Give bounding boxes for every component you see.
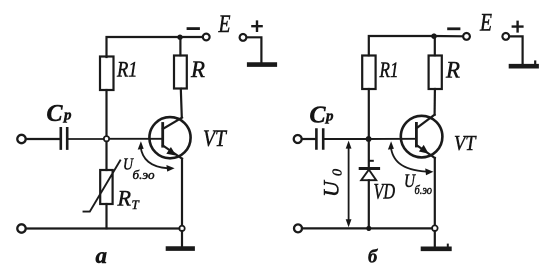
- label R: [190, 57, 205, 82]
- wire thermistor to bottom rail: [105, 204, 107, 229]
- wire emitter down (right): [434, 158, 436, 225]
- label R1 (right): [379, 57, 399, 82]
- ground top right (left circuit): [249, 62, 275, 67]
- minus sign: [188, 27, 199, 30]
- label U b.e0 (right): [404, 171, 432, 197]
- label VD: [374, 179, 396, 204]
- label U0 (rotated): [319, 169, 346, 197]
- wire base node to transistor base: [109, 138, 161, 140]
- ground top right (right circuit): [511, 62, 537, 67]
- label Cp (right): [310, 103, 335, 129]
- label VT (left): [203, 126, 228, 151]
- label RT: [116, 186, 139, 213]
- wire rail to resistor R (right): [434, 36, 436, 56]
- resistor R1: [100, 57, 114, 91]
- svg-text:б.эо: б.эо: [415, 183, 433, 197]
- wire bottom rail right circuit: [302, 227, 432, 229]
- plus sign (right): [513, 22, 523, 32]
- capacitor Cp (right): [316, 130, 323, 149]
- terminal + (right): [502, 33, 509, 40]
- terminal -E (right): [463, 33, 470, 40]
- wire emitter down: [181, 159, 183, 226]
- svg-text:E: E: [218, 11, 231, 38]
- wire rail to -E terminal (right): [434, 35, 463, 37]
- diode VD: [360, 142, 378, 229]
- label E (right): [479, 10, 492, 37]
- svg-text:T: T: [132, 197, 140, 212]
- svg-text:VT: VT: [454, 131, 477, 155]
- node base junction (right, filled): [366, 136, 372, 142]
- resistor R1 (right): [362, 56, 375, 90]
- label a: [96, 243, 108, 268]
- svg-text:R1: R1: [379, 57, 399, 82]
- ground bottom (left circuit): [168, 231, 193, 249]
- terminal input top (right): [294, 135, 302, 143]
- capacitor Cp (left): [61, 128, 67, 148]
- label R1: [116, 56, 137, 81]
- terminal -E: [203, 34, 210, 41]
- wire rail to -E terminal: [180, 36, 203, 38]
- label Cp: [47, 101, 73, 127]
- wire R to collector: [181, 89, 182, 118]
- resistor R: [174, 56, 187, 89]
- label b: [368, 248, 378, 268]
- minus sign (right): [449, 27, 459, 30]
- node junction top (collector branch): [177, 35, 182, 40]
- svg-text:0: 0: [331, 169, 346, 176]
- plus sign: [252, 22, 261, 31]
- svg-text:C: C: [47, 101, 64, 127]
- wire top rail left circuit: [107, 37, 181, 57]
- wire + terminal to ground (right): [509, 36, 522, 64]
- terminal input bottom (right): [294, 224, 302, 232]
- svg-text:R: R: [445, 58, 460, 83]
- wire bottom rail left circuit: [26, 227, 180, 229]
- node emitter-rail junction (open): [179, 226, 184, 231]
- wire capacitor to base node (right): [325, 138, 369, 140]
- wire capacitor to base node: [69, 138, 104, 140]
- node junction top right: [431, 33, 437, 39]
- svg-text:R1: R1: [116, 56, 137, 81]
- terminal input bottom: [17, 224, 25, 232]
- wire input to capacitor (right): [302, 138, 315, 140]
- svg-text:R: R: [116, 186, 131, 211]
- svg-text:p: p: [324, 109, 334, 125]
- wire base node to thermistor: [105, 142, 107, 171]
- U b.e arrow (right, curved): [388, 141, 434, 175]
- wire R1 to base node (right): [368, 89, 370, 139]
- node diode-rail junction (filled): [366, 226, 371, 231]
- label VT (right): [454, 131, 477, 155]
- terminal input top: [17, 135, 25, 143]
- wire R1 bottom to base node: [105, 90, 107, 136]
- svg-text:б: б: [368, 248, 378, 268]
- wire rail to resistor R: [179, 37, 181, 56]
- svg-text:p: p: [62, 108, 72, 124]
- label R (right): [445, 58, 460, 83]
- svg-text:U: U: [319, 179, 344, 197]
- svg-text:б.эо: б.эо: [133, 168, 155, 182]
- wire R to collector (right): [434, 89, 436, 115]
- wire input to capacitor: [26, 138, 59, 140]
- U b.e arrow (left, curved): [138, 141, 175, 171]
- transistor VT (left): [149, 117, 190, 159]
- wire top rail right circuit: [369, 36, 434, 56]
- label E: [218, 11, 231, 38]
- label U b.e (left): [123, 154, 155, 182]
- node base junction (open): [104, 136, 109, 141]
- transistor VT (right): [401, 115, 443, 158]
- terminal +: [240, 34, 247, 41]
- node emitter-rail junction (right, open): [432, 225, 438, 231]
- svg-text:VT: VT: [203, 126, 228, 151]
- svg-text:R: R: [190, 57, 205, 82]
- thermistor RT: [84, 160, 121, 211]
- ground bottom (right circuit): [423, 231, 449, 249]
- wire + terminal to ground: [247, 37, 262, 62]
- wire base node to transistor base (right): [369, 138, 416, 140]
- svg-text:E: E: [479, 10, 492, 37]
- svg-text:C: C: [310, 103, 327, 129]
- resistor R (right): [429, 56, 442, 90]
- svg-text:VD: VD: [374, 179, 396, 204]
- svg-text:a: a: [96, 243, 108, 268]
- U0 arrow (double headed): [346, 141, 352, 228]
